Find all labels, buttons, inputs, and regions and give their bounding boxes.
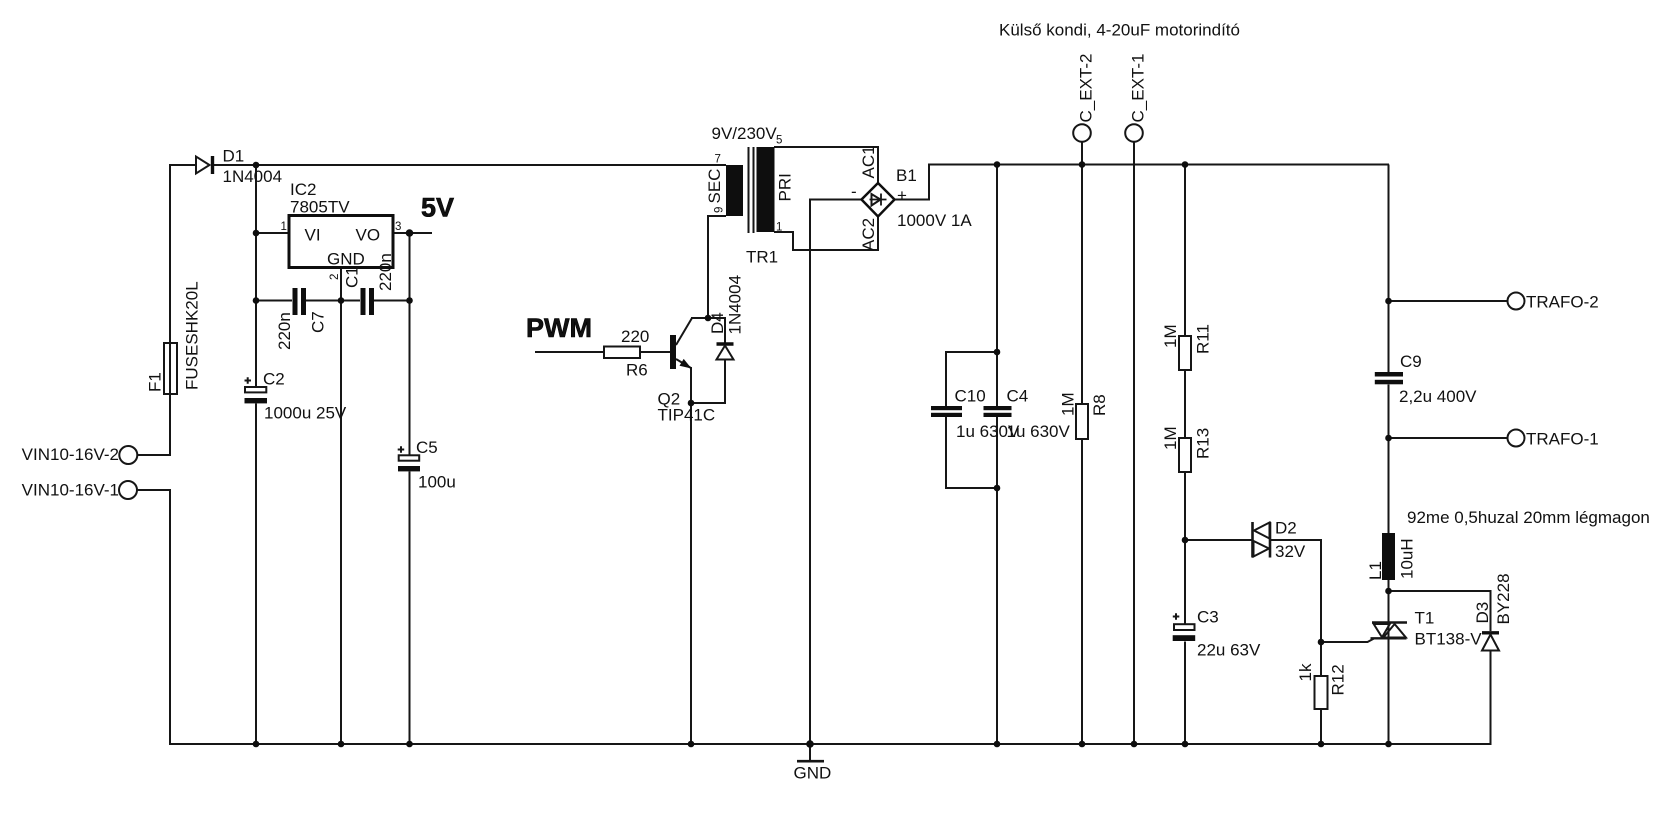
svg-text:1N4004: 1N4004 (726, 275, 745, 335)
wire: IC2 pin 2 GND down (340, 269, 342, 744)
resistor R6 220 (604, 327, 649, 380)
svg-text:FUSESHK20L: FUSESHK20L (183, 281, 202, 390)
wire: D1 cathode rail to TR1 SEC pin 7 (214, 164, 727, 166)
wire: Q2 emitter down (676, 359, 691, 744)
wire: right vertical through C9, L1, T1 (1388, 165, 1390, 745)
terminal TRAFO-2 (1508, 293, 1599, 312)
svg-text:C_EXT-2: C_EXT-2 (1077, 54, 1096, 123)
svg-text:100u: 100u (418, 473, 456, 492)
svg-text:BY228: BY228 (1494, 573, 1513, 624)
wire: L1 output to D3 (1389, 591, 1491, 631)
junction: C10 top (994, 349, 1001, 356)
resistor R11 1M (1161, 324, 1213, 370)
svg-text:GND: GND (327, 250, 365, 269)
svg-text:F1: F1 (146, 372, 165, 392)
capacitor C2 1000u 25V (245, 370, 347, 423)
svg-text:C1: C1 (343, 266, 362, 288)
junction: GND rail at GND symbol (806, 740, 814, 748)
wire: TR1 PRI pin 1 to B1 AC2 (774, 216, 878, 250)
svg-text:5V: 5V (421, 193, 454, 223)
capacitor C3 22u 63V (1173, 608, 1261, 660)
svg-text:7805TV: 7805TV (290, 198, 350, 217)
fuse F1 FUSESHK20L (146, 281, 202, 394)
svg-text:1M: 1M (1161, 324, 1180, 348)
wire: C_EXT-1 terminal down to GND rail (1133, 142, 1135, 744)
svg-text:T1: T1 (1415, 609, 1435, 628)
diac D2 32V (1253, 519, 1306, 562)
svg-text:R12: R12 (1329, 664, 1348, 695)
wire: D1 cathode down to C2 (255, 165, 257, 744)
diode D3 BY228 (1473, 573, 1513, 650)
svg-text:TIP41C: TIP41C (658, 406, 716, 425)
svg-text:-: - (851, 182, 857, 201)
wire: node to TRAFO-1 terminal (1389, 437, 1508, 439)
svg-text:D2: D2 (1275, 519, 1297, 538)
wire: TR1 PRI pin 5 to B1 AC1 (774, 147, 878, 183)
junction: Q2 emitter / D4 anode (688, 400, 695, 407)
svg-text:32V: 32V (1275, 542, 1306, 561)
svg-text:BT138-V: BT138-V (1415, 630, 1483, 649)
wire: Q2 collector to SEC pin 9 node and D4 (676, 318, 725, 345)
terminal TRAFO-1 (1508, 430, 1599, 449)
junction: GND rail at C5 (406, 741, 413, 748)
svg-text:1N4004: 1N4004 (223, 167, 283, 186)
junction: IC2 pin 3 5V node (406, 229, 414, 237)
junction: D1 cathode node (253, 162, 260, 169)
svg-text:220n: 220n (376, 253, 395, 291)
voltage regulator IC2 7805TV (281, 180, 402, 280)
wire: capacitor rail C7/C1 (256, 300, 410, 302)
junction: GND rail at R12 (1318, 741, 1325, 748)
resistor R13 1M (1161, 426, 1213, 472)
resistor R12 1k (1296, 663, 1348, 709)
wire: rail down through C4 (996, 165, 998, 745)
svg-text:R8: R8 (1090, 394, 1109, 416)
wire: VIN10-16V-1 to GND bottom rail (137, 490, 1491, 744)
wire: PWM input to R6 (535, 351, 604, 353)
terminal C_EXT-2 (1073, 54, 1095, 142)
triac T1 BT138-V (1371, 609, 1483, 649)
inductor L1 10uH (1366, 533, 1417, 580)
bridge rectifier B1 1000V 1A (851, 145, 972, 251)
junction: GND rail at C3 (1182, 741, 1189, 748)
junction: GND rail at Q2 emitter (688, 741, 695, 748)
svg-text:10uH: 10uH (1398, 538, 1417, 579)
svg-text:VI: VI (305, 226, 321, 245)
svg-text:D3: D3 (1473, 602, 1492, 624)
svg-text:C4: C4 (1007, 387, 1029, 406)
svg-text:L1: L1 (1366, 561, 1385, 580)
transformer TR1 9V/230V (705, 124, 795, 267)
junction: GND rail at IC2 pin 2 (338, 741, 345, 748)
svg-text:AC1: AC1 (859, 145, 878, 178)
svg-text:AC2: AC2 (859, 218, 878, 251)
wire: B1 plus to top-right rail (894, 165, 1389, 200)
svg-text:7: 7 (715, 154, 721, 166)
junction: cap rail right (406, 297, 413, 304)
svg-text:IC2: IC2 (290, 180, 316, 199)
junction: IC2 pin 2 on cap rail (338, 297, 345, 304)
wire: R6 to Q2 base (640, 351, 670, 353)
svg-text:92me 0,5huzal 20mm légmagon: 92me 0,5huzal 20mm légmagon (1407, 508, 1650, 527)
svg-text:1000V 1A: 1000V 1A (897, 211, 972, 230)
svg-text:TRAFO-2: TRAFO-2 (1526, 293, 1599, 312)
wire: IC2 pin 3 output (394, 232, 432, 234)
svg-text:B1: B1 (896, 166, 917, 185)
wire: D2 to gate node and R12 (1271, 540, 1321, 744)
junction: top rail / R11 branch (1182, 161, 1189, 168)
svg-text:SEC: SEC (705, 169, 724, 204)
svg-text:VO: VO (356, 226, 381, 245)
svg-text:R6: R6 (626, 361, 648, 380)
wire: D4 anode to emitter (691, 360, 725, 404)
junction: IC2 pin 1 node (253, 230, 260, 237)
svg-text:R13: R13 (1194, 428, 1213, 459)
svg-text:1: 1 (776, 222, 782, 234)
junction: top rail / C_EXT-2 (1079, 161, 1086, 168)
svg-text:C10: C10 (955, 387, 986, 406)
wire: node to diac D2 (1185, 539, 1252, 541)
transistor Q2 TIP41C (658, 335, 716, 425)
junction: TRAFO-1 node (1385, 435, 1392, 442)
resistor R8 1M (1059, 392, 1110, 439)
diode D1 1N4004 (196, 147, 282, 187)
svg-text:1M: 1M (1059, 392, 1078, 416)
svg-text:VIN10-16V-1: VIN10-16V-1 (22, 481, 119, 500)
svg-text:1: 1 (281, 221, 287, 233)
junction: GND rail at C4 (994, 741, 1001, 748)
svg-text:GND: GND (794, 764, 832, 783)
junction: R13 / D2 / C3 node (1182, 537, 1189, 544)
wire: VIN10-16V-2 to fuse F1 to D1 anode (138, 165, 197, 455)
diode D4 1N4004 (708, 275, 745, 360)
svg-text:1000u 25V: 1000u 25V (264, 404, 347, 423)
svg-text:C2: C2 (263, 370, 285, 389)
svg-text:TR1: TR1 (746, 248, 778, 267)
svg-text:1M: 1M (1161, 426, 1180, 450)
junction: C7 rail left (253, 297, 260, 304)
svg-text:C_EXT-1: C_EXT-1 (1129, 54, 1148, 123)
svg-text:+: + (897, 186, 907, 205)
capacitor C5 100u (398, 438, 456, 492)
wire: node to TRAFO-2 terminal (1389, 300, 1508, 302)
terminal C_EXT-1 (1125, 54, 1147, 142)
svg-text:1k: 1k (1296, 663, 1315, 681)
svg-text:9V/230V: 9V/230V (712, 124, 778, 143)
junction: GND rail at T1 (1385, 741, 1392, 748)
svg-text:D4: D4 (708, 312, 727, 334)
capacitor C9 2,2u 400V (1375, 352, 1477, 406)
wire: B1 minus to GND (810, 200, 862, 745)
wire: R11 R13 C3 chain (1184, 165, 1186, 745)
svg-text:Külső kondi, 4-20uF motorindít: Külső kondi, 4-20uF motorindító (999, 21, 1240, 40)
junction: Q2 collector / SEC 9 (705, 315, 712, 322)
svg-text:220n: 220n (275, 312, 294, 350)
svg-text:3: 3 (395, 221, 401, 233)
svg-text:C3: C3 (1197, 608, 1219, 627)
terminal VIN10-16V-1 (22, 481, 137, 500)
svg-text:9: 9 (714, 207, 726, 213)
junction: D2 / R12 / gate node (1318, 639, 1325, 646)
wire: 5V node down through C5 (409, 233, 411, 744)
terminal VIN10-16V-2 (22, 445, 138, 464)
svg-text:R11: R11 (1194, 324, 1213, 354)
svg-text:22u 63V: 22u 63V (1197, 641, 1261, 660)
svg-text:220: 220 (621, 327, 649, 346)
svg-text:2: 2 (329, 274, 341, 280)
junction: C10 bottom (994, 485, 1001, 492)
svg-text:5: 5 (776, 135, 782, 147)
wire: gate node to T1 gate (1321, 639, 1374, 643)
junction: TRAFO-2 node (1385, 298, 1392, 305)
junction: L1 / T1 / D3 node (1385, 588, 1392, 595)
svg-text:C9: C9 (1400, 352, 1422, 371)
svg-text:C5: C5 (416, 438, 438, 457)
svg-text:C7: C7 (309, 311, 328, 333)
ground symbol GND (794, 744, 832, 783)
svg-text:1u 630V: 1u 630V (1007, 422, 1071, 441)
capacitor C10 1u 630V (931, 387, 1020, 442)
wire: IC2 pin 1 input (256, 232, 288, 234)
capacitor C4 1u 630V (984, 387, 1071, 442)
junction: GND rail at R8 (1079, 741, 1086, 748)
wire: C10 parallel loop (946, 352, 997, 488)
svg-text:2,2u 400V: 2,2u 400V (1399, 387, 1477, 406)
capacitor C7 220n (275, 288, 328, 350)
wire: C_EXT-2 terminal down through R8 (1081, 142, 1083, 744)
junction: top rail / C4 branch (994, 161, 1001, 168)
wire: TR1 SEC pin 9 down (708, 216, 726, 318)
svg-text:TRAFO-1: TRAFO-1 (1526, 430, 1599, 449)
junction: GND rail at C2 (253, 741, 260, 748)
svg-text:PRI: PRI (776, 173, 795, 201)
svg-text:D1: D1 (223, 147, 245, 166)
junction: GND rail at C_EXT-1 (1131, 741, 1138, 748)
capacitor C1 220n (343, 253, 396, 315)
svg-text:VIN10-16V-2: VIN10-16V-2 (22, 445, 119, 464)
svg-text:PWM: PWM (526, 313, 592, 343)
